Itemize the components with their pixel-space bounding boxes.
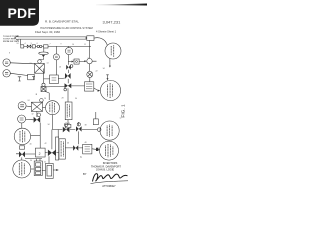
- svg-text:R. B. DAVENPORT ETAL: R. B. DAVENPORT ETAL: [45, 20, 79, 24]
- svg-text:26: 26: [44, 98, 46, 100]
- svg-text:18: 18: [73, 60, 75, 62]
- svg-text:12: 12: [120, 118, 122, 120]
- svg-text:2: 2: [39, 152, 41, 156]
- svg-text:JOHN B. LOGIE: JOHN B. LOGIE: [96, 168, 115, 171]
- svg-text:16: 16: [59, 67, 61, 69]
- svg-text:34: 34: [103, 68, 105, 70]
- svg-text:FIG. 1: FIG. 1: [120, 104, 126, 118]
- svg-text:36: 36: [68, 123, 70, 125]
- svg-text:9: 9: [61, 44, 62, 46]
- svg-text:50: 50: [30, 160, 32, 162]
- svg-text:10: 10: [72, 44, 74, 46]
- svg-text:4 Sheets-Sheet 1: 4 Sheets-Sheet 1: [96, 30, 117, 34]
- svg-text:BY: BY: [83, 172, 87, 176]
- svg-text:40: 40: [30, 144, 32, 146]
- svg-text:11: 11: [84, 44, 86, 46]
- svg-text:ATTORNEY: ATTORNEY: [102, 185, 116, 188]
- svg-text:42: 42: [45, 143, 47, 145]
- svg-text:14: 14: [47, 63, 49, 65]
- svg-text:12: 12: [30, 63, 32, 65]
- svg-text:52: 52: [44, 162, 46, 164]
- svg-text:7: 7: [50, 44, 51, 46]
- svg-text:PDF: PDF: [7, 5, 36, 21]
- svg-text:48: 48: [85, 142, 87, 144]
- svg-text:8: 8: [9, 53, 10, 55]
- svg-text:30: 30: [75, 98, 77, 100]
- svg-text:46: 46: [67, 143, 69, 145]
- svg-text:24: 24: [28, 100, 30, 102]
- svg-text:3,047,231: 3,047,231: [103, 20, 122, 25]
- svg-text:32: 32: [32, 114, 34, 116]
- svg-text:24: 24: [17, 43, 19, 45]
- svg-text:6: 6: [37, 43, 38, 45]
- svg-text:38: 38: [85, 125, 87, 127]
- svg-text:5: 5: [31, 43, 32, 45]
- svg-text:Filed Sept. 30, 1966: Filed Sept. 30, 1966: [35, 30, 60, 34]
- svg-text:22: 22: [96, 71, 98, 73]
- svg-text:34: 34: [48, 124, 50, 126]
- svg-text:20: 20: [88, 58, 90, 60]
- svg-text:28: 28: [62, 98, 64, 100]
- svg-text:4: 4: [25, 43, 26, 45]
